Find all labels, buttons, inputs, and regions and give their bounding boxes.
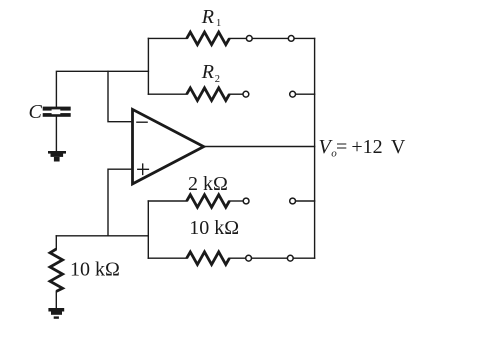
svg-text:10 kΩ: 10 kΩ [70, 259, 120, 281]
svg-text:R: R [201, 61, 214, 83]
svg-text:+12: +12 [351, 136, 382, 158]
svg-text:C: C [29, 101, 43, 123]
svg-text:=: = [336, 136, 347, 158]
svg-text:R: R [201, 6, 214, 28]
svg-text:10 kΩ: 10 kΩ [189, 217, 239, 239]
svg-text:2 kΩ: 2 kΩ [188, 173, 228, 195]
svg-text:V: V [391, 136, 406, 158]
svg-text:2: 2 [215, 74, 220, 85]
svg-text:1: 1 [216, 18, 221, 29]
